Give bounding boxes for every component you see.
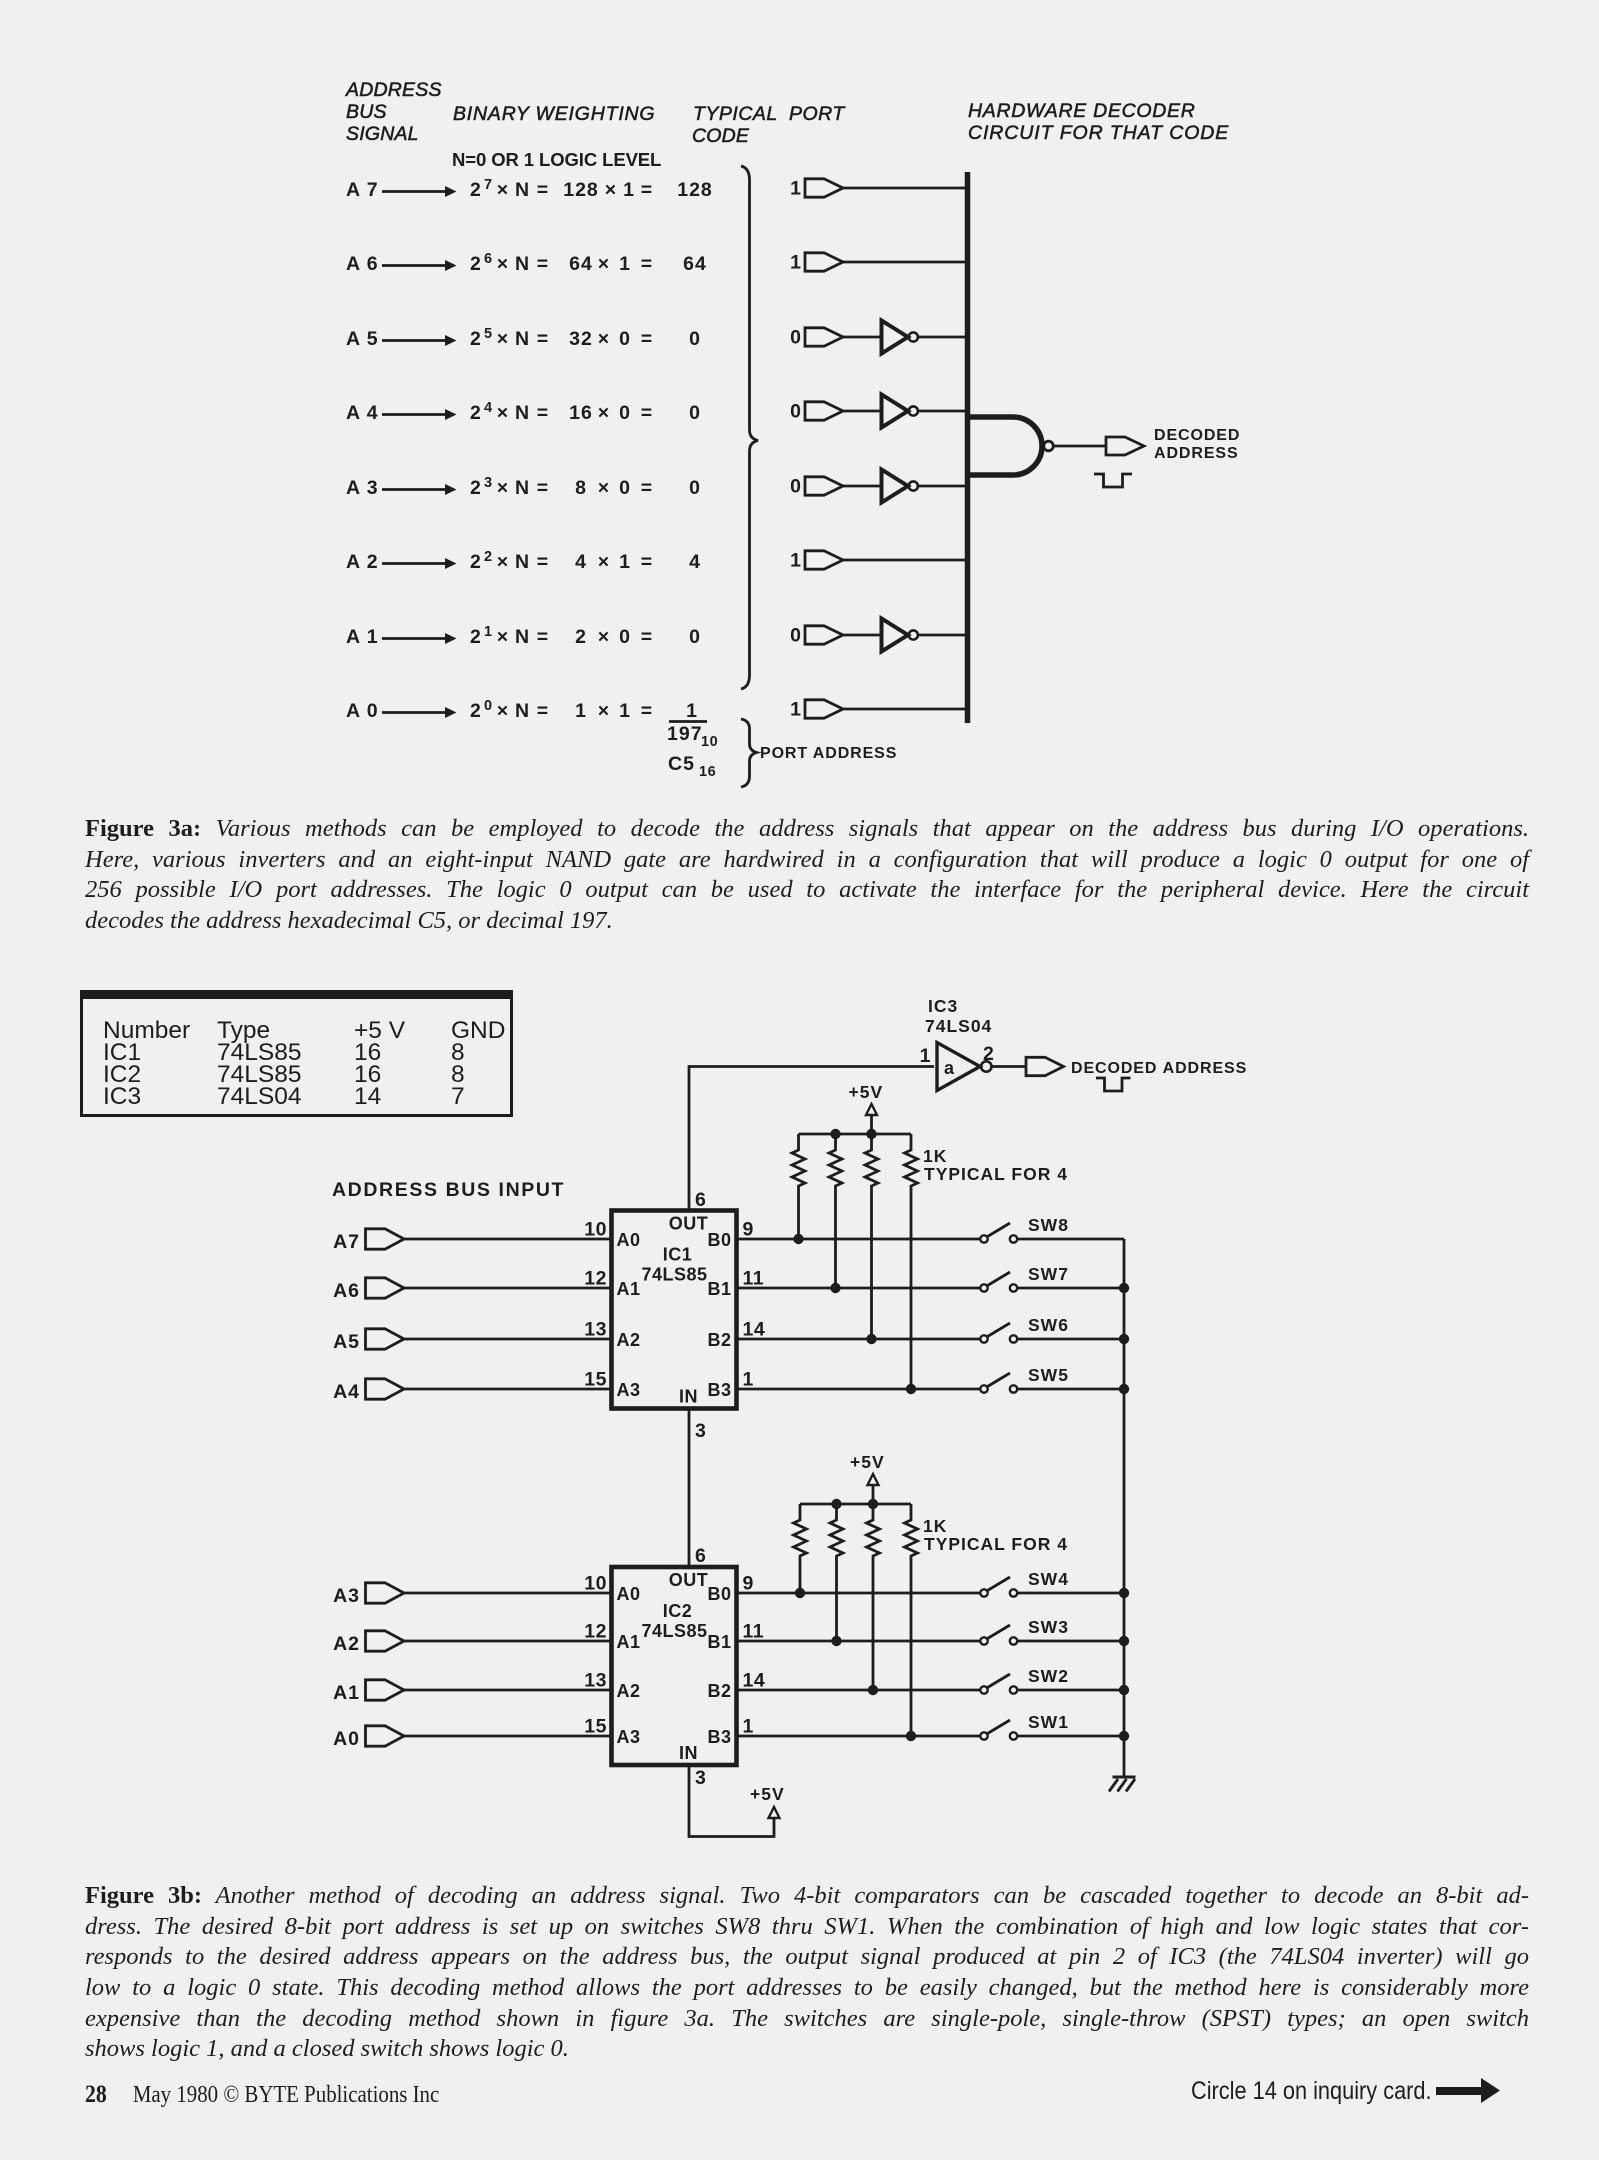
svg-text:9: 9 — [743, 1573, 754, 1595]
value label weighting formula A6 — [470, 251, 707, 275]
pin 14 B2 of IC1 — [707, 1319, 765, 1351]
svg-text:A 6: A 6 — [346, 253, 379, 275]
svg-text:B3: B3 — [707, 1380, 731, 1400]
svg-text:15: 15 — [584, 1716, 607, 1738]
svg-text:DECODED ADDRESS: DECODED ADDRESS — [1071, 1060, 1247, 1077]
junction dot resistor/B3 row — [906, 1384, 916, 1394]
wire switch SW2 to bus — [1017, 1689, 1124, 1692]
svg-text:CIRCUIT FOR THAT CODE: CIRCUIT FOR THAT CODE — [968, 122, 1229, 144]
svg-text:A0: A0 — [617, 1584, 641, 1604]
wire IC1 B2 to switch — [737, 1338, 981, 1341]
switch SW6 (SPST) — [980, 1315, 1069, 1343]
svg-text:×: × — [598, 700, 610, 722]
label DECODED ADDRESS (fig 3b) — [1071, 1060, 1247, 1077]
wire flag to inverter A1 — [843, 634, 881, 637]
svg-text:6: 6 — [484, 251, 493, 267]
svg-text:=: = — [537, 551, 549, 573]
value label weighting formula A7 — [470, 177, 713, 201]
label 1K TYPICAL FOR 4 — [923, 1516, 1068, 1554]
svg-text:1: 1 — [686, 700, 698, 722]
svg-text:14: 14 — [743, 1319, 766, 1341]
svg-text:12: 12 — [584, 1621, 607, 1643]
svg-text:6: 6 — [695, 1189, 706, 1211]
wire switch SW8 to bus — [1017, 1238, 1124, 1241]
svg-text:×: × — [497, 477, 509, 499]
svg-text:SW4: SW4 — [1028, 1569, 1069, 1589]
svg-text:11: 11 — [743, 1268, 765, 1290]
wire NAND output — [1054, 445, 1106, 448]
svg-text:N: N — [515, 402, 530, 424]
IC power pin table — [80, 990, 513, 1117]
pin 14 B2 of IC2 — [707, 1670, 765, 1702]
switch SW7 (SPST) — [980, 1264, 1069, 1292]
svg-text:IC2: IC2 — [663, 1601, 693, 1621]
junction dot resistor/B2 row — [866, 1334, 876, 1344]
svg-text:BINARY WEIGHTING: BINARY WEIGHTING — [453, 103, 655, 125]
wire A7 arrow to weighting — [382, 186, 457, 197]
svg-text:0: 0 — [689, 402, 701, 424]
svg-text:A5: A5 — [333, 1331, 360, 1353]
wire flag to bus A2 — [843, 559, 968, 562]
svg-text:1: 1 — [790, 699, 802, 721]
junction dot rail — [868, 1499, 878, 1509]
junction dot rail — [830, 1129, 840, 1139]
svg-text:16: 16 — [569, 402, 593, 424]
svg-text:IN: IN — [679, 1743, 698, 1763]
wire IC3 output — [992, 1065, 1026, 1068]
svg-text:=: = — [537, 253, 549, 275]
inverter on A3 — [882, 470, 918, 503]
label DECODED ADDRESS — [1154, 427, 1240, 462]
wire A4 arrow to weighting — [382, 409, 457, 420]
svg-text:1: 1 — [790, 252, 802, 274]
junction dot resistor/B1 row — [830, 1283, 840, 1293]
input flag A6 — [333, 1278, 404, 1302]
power +5V arrow — [866, 1104, 877, 1134]
wire A5 arrow to weighting — [382, 335, 457, 346]
wired-AND input bus bar — [965, 172, 971, 723]
svg-text:SW6: SW6 — [1028, 1315, 1069, 1335]
svg-text:C5: C5 — [668, 753, 695, 775]
svg-text:DECODED: DECODED — [1154, 427, 1240, 444]
svg-text:+5V: +5V — [750, 1784, 785, 1804]
svg-text:10: 10 — [701, 734, 718, 750]
svg-text:74LS85: 74LS85 — [641, 1265, 707, 1285]
svg-text:N: N — [515, 551, 530, 573]
svg-text:0: 0 — [619, 328, 631, 350]
wire input A3 to IC2 pin 10 — [404, 1592, 612, 1595]
inquiry card arrow — [1436, 2078, 1500, 2103]
buffer flag A3 — [805, 477, 843, 495]
svg-text:8: 8 — [575, 477, 587, 499]
svg-text:A1: A1 — [617, 1632, 641, 1652]
resistor 1K pullup to B1 row — [829, 1134, 842, 1288]
port code bit A7 — [790, 178, 802, 200]
svg-text:B2: B2 — [707, 1330, 731, 1350]
svg-text:IC3: IC3 — [928, 996, 958, 1016]
wire switch SW6 to bus — [1017, 1338, 1124, 1341]
NAND gate U1 (8-input) — [969, 417, 1053, 475]
pin 6 label IC2 — [695, 1545, 706, 1567]
svg-text:A 0: A 0 — [346, 700, 379, 722]
inverter on A5 — [882, 321, 918, 354]
value label weighting formula A4 — [470, 400, 701, 424]
svg-text:×: × — [497, 328, 509, 350]
svg-text:15: 15 — [584, 1369, 607, 1391]
input flag A2 — [333, 1631, 404, 1655]
svg-text:B3: B3 — [707, 1727, 731, 1747]
node A7 signal label — [346, 179, 379, 201]
switch SW3 (SPST) — [980, 1617, 1069, 1645]
svg-text:0: 0 — [790, 625, 802, 647]
svg-text:13: 13 — [584, 1670, 607, 1692]
wire A1 arrow to weighting — [382, 633, 457, 644]
svg-text:7: 7 — [484, 177, 493, 193]
switch SW8 (SPST) — [980, 1215, 1069, 1243]
pin 13 A2 of IC2 — [584, 1670, 640, 1702]
svg-text:=: = — [537, 328, 549, 350]
svg-text:×: × — [598, 626, 610, 648]
+5V rail — [799, 1133, 912, 1136]
svg-text:A 4: A 4 — [346, 402, 379, 424]
pin 1 B3 of IC2 — [707, 1716, 753, 1748]
svg-text:74LS04: 74LS04 — [925, 1016, 992, 1036]
svg-text:HARDWARE DECODER: HARDWARE DECODER — [968, 100, 1196, 122]
note N=0 OR 1 LOGIC LEVEL — [452, 149, 661, 170]
gate letter a — [944, 1058, 955, 1078]
svg-text:0: 0 — [619, 402, 631, 424]
pin 15 A3 of IC1 — [584, 1369, 640, 1401]
junction dot rail — [866, 1129, 876, 1139]
pin 15 A3 of IC2 — [584, 1716, 640, 1748]
svg-text:TYPICAL FOR 4: TYPICAL FOR 4 — [924, 1164, 1068, 1184]
svg-text:SIGNAL: SIGNAL — [346, 123, 419, 145]
pin 10 A0 of IC2 — [584, 1573, 640, 1605]
svg-text:2: 2 — [470, 402, 482, 424]
svg-text:N: N — [515, 179, 530, 201]
wire input A7 to IC1 pin 10 — [404, 1238, 612, 1241]
svg-text:9: 9 — [743, 1219, 754, 1241]
pin 3 label IC1 — [695, 1420, 706, 1442]
junction dot bus y=1593 — [1119, 1588, 1129, 1598]
node A1 signal label — [346, 626, 379, 648]
port code bit A6 — [790, 252, 802, 274]
svg-text:3: 3 — [695, 1420, 706, 1442]
column header BINARY WEIGHTING — [453, 103, 655, 125]
svg-text:A2: A2 — [333, 1633, 360, 1655]
junction dot bus y=1736 — [1119, 1731, 1129, 1741]
buffer flag A2 — [805, 551, 843, 569]
wire A3 arrow to weighting — [382, 484, 457, 495]
pin 3 label IC2 — [695, 1767, 706, 1789]
svg-text:N: N — [515, 477, 530, 499]
column header HARDWARE DECODER CIRCUIT FOR THAT CODE — [968, 100, 1229, 144]
svg-text:SW3: SW3 — [1028, 1617, 1069, 1637]
wire flag to inverter A5 — [843, 336, 881, 339]
wire switch SW4 to bus — [1017, 1592, 1124, 1595]
svg-text:1: 1 — [484, 624, 493, 640]
figure 3b caption — [85, 1882, 1529, 2066]
wire flag to bus A6 — [843, 261, 968, 264]
svg-text:13: 13 — [584, 1319, 607, 1341]
wire input A2 to IC2 pin 12 — [404, 1640, 612, 1643]
node A6 signal label — [346, 253, 379, 275]
svg-text:2: 2 — [484, 549, 493, 565]
svg-text:0: 0 — [790, 401, 802, 423]
wire IC1 B1 to switch — [737, 1287, 981, 1290]
svg-text:A 2: A 2 — [346, 551, 379, 573]
power +5V arrow (IC2 IN) — [769, 1807, 780, 1818]
wire switch SW7 to bus — [1017, 1287, 1124, 1290]
svg-text:A3: A3 — [617, 1380, 641, 1400]
buffer flag A4 — [805, 402, 843, 420]
svg-text:1: 1 — [743, 1716, 754, 1738]
sum C5 hexadecimal — [668, 753, 716, 780]
negative pulse symbol — [1094, 474, 1132, 487]
svg-text:1: 1 — [575, 700, 587, 722]
svg-text:A 5: A 5 — [346, 328, 379, 350]
svg-text:4: 4 — [689, 551, 701, 573]
svg-text:×: × — [497, 551, 509, 573]
svg-text:IN: IN — [679, 1387, 698, 1407]
buffer flag A5 — [805, 328, 843, 346]
resistor 1K pullup to B2 row — [867, 1504, 880, 1690]
resistor 1K pullup to B1 row — [830, 1504, 843, 1641]
svg-text:0: 0 — [689, 477, 701, 499]
value label weighting formula A1 — [470, 624, 701, 648]
svg-text:N: N — [515, 328, 530, 350]
wire flag to bus A0 — [843, 708, 968, 711]
svg-text:ADDRESS BUS INPUT: ADDRESS BUS INPUT — [332, 1179, 565, 1201]
svg-text:SW8: SW8 — [1028, 1215, 1069, 1235]
resistor 1K pullup to B3 row — [905, 1504, 918, 1736]
sum fraction 1 / 197 decimal — [667, 700, 718, 750]
svg-text:×: × — [497, 179, 509, 201]
resistor 1K pullup to B0 row — [792, 1134, 805, 1239]
svg-text:5: 5 — [484, 326, 493, 342]
svg-text:1: 1 — [623, 179, 635, 201]
switch SW1 (SPST) — [980, 1712, 1069, 1740]
svg-text:N: N — [515, 626, 530, 648]
svg-text:N: N — [515, 700, 530, 722]
svg-text:A 1: A 1 — [346, 626, 379, 648]
svg-text:×: × — [497, 626, 509, 648]
junction dot rail — [831, 1499, 841, 1509]
svg-text:+5V: +5V — [849, 1082, 884, 1102]
svg-text:=: = — [641, 179, 653, 201]
wire IC1 B0 to switch — [737, 1238, 981, 1241]
wire IC1 B3 to switch — [737, 1388, 981, 1391]
pin 12 A1 of IC2 — [584, 1621, 640, 1653]
input flag A0 — [333, 1726, 404, 1750]
pin 1 B3 of IC1 — [707, 1369, 753, 1401]
svg-text:10: 10 — [584, 1219, 607, 1241]
svg-text:14: 14 — [743, 1670, 766, 1692]
wire A6 arrow to weighting — [382, 260, 457, 271]
pin 11 B1 of IC2 — [707, 1621, 764, 1653]
svg-text:16: 16 — [699, 764, 716, 780]
svg-text:A3: A3 — [617, 1727, 641, 1747]
svg-text:TYPICAL: TYPICAL — [693, 103, 778, 125]
pin 2 label IC3 — [983, 1043, 994, 1065]
output flag DECODED ADDRESS (fig 3b) — [1026, 1057, 1064, 1075]
node A4 signal label — [346, 402, 379, 424]
page footer — [85, 2081, 439, 2109]
svg-text:=: = — [641, 253, 653, 275]
resistor 1K pullup to B3 row — [905, 1134, 918, 1389]
svg-text:A2: A2 — [617, 1681, 641, 1701]
pin 13 A2 of IC1 — [584, 1319, 640, 1351]
input flag A3 — [333, 1583, 404, 1607]
wire flag to bus A7 — [843, 187, 968, 190]
svg-text:=: = — [537, 402, 549, 424]
svg-text:10: 10 — [584, 1573, 607, 1595]
label IC3 74LS04 — [925, 996, 992, 1036]
svg-text:2: 2 — [470, 477, 482, 499]
svg-text:×: × — [598, 253, 610, 275]
svg-text:=: = — [641, 328, 653, 350]
svg-text:=: = — [641, 402, 653, 424]
svg-text:197: 197 — [667, 723, 703, 745]
value label weighting formula A0 — [470, 698, 653, 722]
svg-text:=: = — [641, 477, 653, 499]
wire flag to inverter A4 — [843, 410, 881, 413]
wire inverter to bus A3 — [918, 485, 968, 488]
output flag DECODED ADDRESS — [1106, 437, 1144, 455]
wire IC2 IN pin3 to +5V — [689, 1765, 774, 1837]
+5V rail — [800, 1503, 911, 1506]
svg-text:×: × — [598, 551, 610, 573]
junction dot bus y=1389 — [1119, 1384, 1129, 1394]
svg-text:128: 128 — [677, 179, 713, 201]
svg-text:×: × — [605, 179, 617, 201]
switch output bus to ground — [1123, 1239, 1126, 1777]
svg-text:0: 0 — [790, 327, 802, 349]
switch SW2 (SPST) — [980, 1666, 1069, 1694]
svg-text:PORT: PORT — [789, 103, 846, 125]
svg-text:4: 4 — [575, 551, 587, 573]
svg-text:A0: A0 — [617, 1230, 641, 1250]
svg-text:1: 1 — [619, 700, 631, 722]
wire switch SW1 to bus — [1017, 1735, 1124, 1738]
wire IC2 B0 to switch — [737, 1592, 981, 1595]
svg-text:1: 1 — [743, 1369, 754, 1391]
svg-text:0: 0 — [484, 698, 493, 714]
svg-text:A7: A7 — [333, 1231, 360, 1253]
svg-text:=: = — [641, 700, 653, 722]
buffer flag A6 — [805, 253, 843, 271]
pin 12 A1 of IC1 — [584, 1268, 640, 1300]
label ADDRESS BUS INPUT — [332, 1179, 565, 1201]
svg-text:4: 4 — [484, 400, 493, 416]
svg-text:0: 0 — [790, 476, 802, 498]
ground symbol — [1109, 1777, 1136, 1792]
junction dot resistor/B3 row — [906, 1731, 916, 1741]
svg-text:74LS85: 74LS85 — [641, 1621, 707, 1641]
svg-text:ADDRESS: ADDRESS — [345, 79, 442, 101]
svg-text:B2: B2 — [707, 1681, 731, 1701]
value label weighting formula A5 — [470, 326, 701, 350]
svg-text:=: = — [537, 626, 549, 648]
inverter on A1 — [882, 619, 918, 652]
column header TYPICAL PORT CODE — [692, 103, 846, 147]
input flag A1 — [333, 1680, 404, 1704]
figure 3a caption — [85, 815, 1529, 938]
svg-text:+5V: +5V — [850, 1452, 885, 1472]
svg-text:SW2: SW2 — [1028, 1666, 1069, 1686]
wire switch SW3 to bus — [1017, 1640, 1124, 1643]
svg-text:0: 0 — [689, 626, 701, 648]
wire IC2 B1 to switch — [737, 1640, 981, 1643]
svg-text:3: 3 — [484, 475, 493, 491]
port code bit A5 — [790, 327, 802, 349]
junction dot resistor/B0 row — [793, 1234, 803, 1244]
svg-text:1K: 1K — [923, 1146, 947, 1166]
svg-text:BUS: BUS — [346, 101, 387, 123]
svg-text:SW1: SW1 — [1028, 1712, 1069, 1732]
resistor 1K pullup to B2 row — [865, 1134, 878, 1339]
switch SW4 (SPST) — [980, 1569, 1069, 1597]
svg-text:2: 2 — [470, 179, 482, 201]
negative pulse symbol (fig 3b) — [1096, 1078, 1131, 1091]
svg-text:=: = — [641, 626, 653, 648]
svg-text:A1: A1 — [617, 1279, 641, 1299]
junction dot resistor/B1 row — [831, 1636, 841, 1646]
svg-text:B0: B0 — [707, 1584, 731, 1604]
svg-text:32: 32 — [569, 328, 593, 350]
svg-text:1: 1 — [790, 178, 802, 200]
svg-text:A 7: A 7 — [346, 179, 379, 201]
svg-text:A1: A1 — [333, 1682, 360, 1704]
node A5 signal label — [346, 328, 379, 350]
wire inverter to bus A1 — [918, 634, 968, 637]
svg-text:=: = — [641, 551, 653, 573]
input flag A4 — [333, 1379, 404, 1403]
resistor 1K pullup to B0 row — [794, 1504, 807, 1593]
svg-text:64: 64 — [683, 253, 707, 275]
svg-text:×: × — [598, 402, 610, 424]
wire inverter to bus A5 — [918, 336, 968, 339]
pin 10 A0 of IC1 — [584, 1219, 640, 1251]
label +5V — [849, 1082, 884, 1102]
svg-text:2: 2 — [470, 253, 482, 275]
port code bit A4 — [790, 401, 802, 423]
svg-text:N: N — [515, 253, 530, 275]
svg-text:2: 2 — [983, 1043, 994, 1065]
wire switch SW5 to bus — [1017, 1388, 1124, 1391]
svg-text:128: 128 — [563, 179, 599, 201]
svg-text:1: 1 — [790, 550, 802, 572]
svg-text:A0: A0 — [333, 1728, 360, 1750]
svg-text:×: × — [598, 328, 610, 350]
port code bit A1 — [790, 625, 802, 647]
pin 9 B0 of IC1 — [707, 1219, 753, 1251]
svg-text:OUT: OUT — [669, 1214, 709, 1234]
wire A0 arrow to weighting — [382, 707, 457, 718]
node A0 signal label — [346, 700, 379, 722]
node A2 signal label — [346, 551, 379, 573]
svg-text:×: × — [497, 402, 509, 424]
svg-text:OUT: OUT — [669, 1570, 709, 1590]
wire IC1 pin6 up to IC3 input — [689, 1067, 934, 1211]
svg-text:×: × — [497, 253, 509, 275]
svg-text:12: 12 — [584, 1268, 607, 1290]
svg-text:2: 2 — [470, 700, 482, 722]
svg-text:=: = — [537, 179, 549, 201]
pin 11 B1 of IC1 — [707, 1268, 764, 1300]
wire inverter to bus A4 — [918, 410, 968, 413]
label PORT ADDRESS — [760, 745, 897, 762]
